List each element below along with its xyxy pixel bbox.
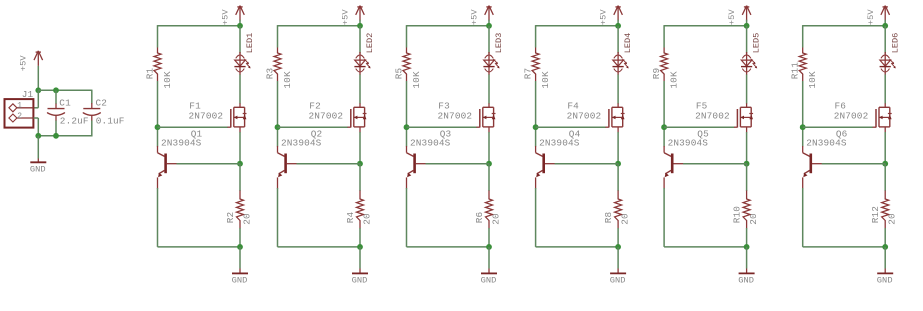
svg-text:GND: GND: [877, 276, 893, 286]
svg-text:10K: 10K: [540, 71, 551, 89]
wire left rail middle: [802, 81, 804, 147]
wire emitter down: [802, 188, 804, 247]
wire gate: [803, 126, 873, 128]
node gate junction: [800, 124, 806, 130]
wire emitter down: [157, 188, 159, 247]
resistor R10 20: [732, 191, 759, 229]
wire source node to R: [239, 164, 241, 191]
wire left rail upper: [663, 25, 665, 47]
svg-text:2N7002: 2N7002: [834, 111, 869, 122]
wire bottom rail: [803, 246, 886, 248]
node bottom junction: [237, 244, 243, 250]
wire emitter down: [406, 188, 408, 247]
resistor R2 20: [225, 191, 252, 229]
+5V supply symbol: [727, 6, 751, 26]
svg-text:10K: 10K: [282, 71, 293, 89]
wire +5V stub: [884, 20, 886, 26]
node +5V junction: [357, 23, 363, 29]
svg-text:GND: GND: [738, 276, 754, 286]
node base junction: [486, 161, 492, 167]
node gate junction: [533, 124, 539, 130]
MOSFET F1 2N7002: [189, 101, 247, 133]
wire J1 pin 2 to GND rail: [34, 117, 39, 119]
resistor R8 20: [603, 191, 630, 229]
svg-text:LED4: LED4: [623, 33, 633, 54]
wire top rail: [158, 25, 241, 27]
ground: [877, 273, 893, 285]
wire bottom rail: [664, 246, 747, 248]
wire left rail upper: [535, 25, 537, 47]
svg-text:GND: GND: [232, 276, 248, 286]
MOSFET F6 2N7002: [834, 101, 892, 133]
svg-text:R1: R1: [145, 68, 156, 80]
wire C2 drop: [91, 90, 93, 104]
svg-text:GND: GND: [610, 276, 626, 286]
wire source to base node: [488, 132, 490, 164]
svg-text:+5V: +5V: [341, 9, 351, 26]
wire left rail upper: [406, 25, 408, 47]
wire C2 bottom: [91, 121, 93, 137]
+5V supply symbol: [341, 6, 365, 26]
pin 1 of J1: [9, 101, 34, 111]
svg-text:2N3904S: 2N3904S: [161, 138, 202, 149]
svg-text:2N7002: 2N7002: [567, 111, 602, 122]
svg-text:10K: 10K: [669, 71, 680, 89]
svg-text:C1: C1: [59, 97, 71, 108]
svg-text:LED3: LED3: [494, 33, 504, 54]
connector J1: [5, 89, 34, 127]
wire +5V stub: [239, 20, 241, 26]
wire top rail: [278, 25, 361, 27]
wire to GND: [359, 247, 361, 269]
resistor R12 20: [870, 191, 897, 229]
svg-text:R2: R2: [225, 212, 236, 224]
wire left rail middle: [663, 81, 665, 147]
wire top rail: [407, 25, 490, 27]
wire R to bottom junction: [746, 228, 748, 247]
node base junction: [744, 161, 750, 167]
MOSFET F4 2N7002: [567, 101, 625, 133]
transistor Q4 2N3904S: [536, 128, 581, 188]
wire to GND: [488, 247, 490, 269]
ground: [232, 273, 248, 285]
LED LED6: [880, 26, 901, 75]
svg-text:LED6: LED6: [890, 33, 900, 54]
wire source to base node: [359, 132, 361, 164]
wire left rail middle: [535, 81, 537, 147]
svg-text:LED2: LED2: [365, 33, 375, 54]
resistor R9 10K: [651, 48, 680, 89]
+5V supply symbol: [599, 6, 623, 26]
resistor R4 20: [345, 191, 372, 229]
wire top rail: [536, 25, 619, 27]
wire bottom rail: [407, 246, 490, 248]
node +5V junction: [882, 23, 888, 29]
wire +5V down to J1 pin 1: [37, 90, 39, 108]
node +5V junction at capacitors: [35, 87, 41, 93]
wire source to base node: [239, 132, 241, 164]
wire LED to MOSFET drain: [239, 75, 241, 104]
svg-text:10K: 10K: [162, 71, 173, 89]
node gate junction: [275, 124, 281, 130]
svg-text:1: 1: [17, 101, 22, 110]
svg-text:GND: GND: [30, 164, 46, 174]
svg-text:R10: R10: [732, 206, 743, 224]
svg-text:2N3904S: 2N3904S: [668, 138, 709, 149]
node base junction: [357, 161, 363, 167]
wire +5V stub: [746, 20, 748, 26]
wire top rail: [664, 25, 747, 27]
wire +5V stub: [359, 20, 361, 26]
transistor Q2 2N3904S: [278, 128, 323, 188]
svg-text:10K: 10K: [411, 71, 422, 89]
capacitor C2: [83, 97, 124, 126]
svg-text:R7: R7: [523, 68, 534, 80]
LED LED4: [613, 26, 634, 75]
node bottom junction: [357, 244, 363, 250]
wire to GND symbol: [37, 136, 39, 159]
LED LED2: [354, 26, 375, 75]
svg-text:GND: GND: [481, 276, 497, 286]
svg-text:R11: R11: [790, 62, 801, 80]
transistor Q6 2N3904S: [803, 128, 848, 188]
+5V supply symbol: [866, 6, 890, 26]
wire +5V stub: [488, 20, 490, 26]
svg-text:20: 20: [748, 213, 759, 225]
+5V supply symbol: [470, 6, 494, 26]
wire base to junction: [426, 163, 490, 165]
transistor Q1 2N3904S: [158, 128, 203, 188]
svg-text:20: 20: [361, 213, 372, 225]
wire gate: [158, 126, 228, 128]
LED LED3: [483, 26, 504, 75]
node +5V junction: [237, 23, 243, 29]
wire to GND: [884, 247, 886, 269]
MOSFET F5 2N7002: [695, 101, 753, 133]
svg-text:R9: R9: [651, 68, 662, 80]
node base junction: [882, 161, 888, 167]
ground: [481, 273, 497, 285]
svg-text:+5V: +5V: [599, 9, 609, 26]
wire LED to MOSFET drain: [617, 75, 619, 104]
wire +5V to junction: [37, 66, 39, 90]
wire to GND: [746, 247, 748, 269]
svg-text:+5V: +5V: [221, 9, 231, 26]
svg-text:2N7002: 2N7002: [309, 111, 344, 122]
svg-text:R4: R4: [345, 212, 356, 224]
node gate junction: [155, 124, 161, 130]
pin 2 of J1: [9, 112, 34, 122]
wire base to junction: [177, 163, 241, 165]
svg-text:J1: J1: [22, 89, 34, 100]
wire source to base node: [746, 132, 748, 164]
wire base to junction: [822, 163, 886, 165]
wire left rail middle: [157, 81, 159, 147]
node +5V junction: [486, 23, 492, 29]
wire left rail middle: [406, 81, 408, 147]
svg-text:R6: R6: [474, 212, 485, 224]
svg-text:2N7002: 2N7002: [189, 111, 224, 122]
node gate junction: [661, 124, 667, 130]
wire base to junction: [297, 163, 361, 165]
wire LED to MOSFET drain: [359, 75, 361, 104]
wire bottom rail: [278, 246, 361, 248]
svg-text:2N7002: 2N7002: [438, 111, 473, 122]
node +5V junction: [615, 23, 621, 29]
wire to GND: [239, 247, 241, 269]
svg-text:R12: R12: [870, 206, 881, 223]
node bottom junction: [615, 244, 621, 250]
resistor R5 10K: [394, 48, 423, 89]
transistor Q5 2N3904S: [664, 128, 709, 188]
ground: [30, 162, 46, 174]
svg-text:+5V: +5V: [727, 9, 737, 26]
svg-text:+5V: +5V: [18, 55, 28, 72]
wire emitter down: [663, 188, 665, 247]
svg-text:GND: GND: [352, 276, 368, 286]
wire bottom rail: [536, 246, 619, 248]
+5V supply symbol: [18, 51, 42, 71]
wire base to junction: [683, 163, 747, 165]
wire left rail middle: [277, 81, 279, 147]
wire source to base node: [617, 132, 619, 164]
wire source node to R: [617, 164, 619, 191]
wire source node to R: [359, 164, 361, 191]
node bottom junction: [486, 244, 492, 250]
transistor Q3 2N3904S: [407, 128, 452, 188]
wire base to junction: [555, 163, 619, 165]
wire emitter down: [277, 188, 279, 247]
wire gate: [278, 126, 348, 128]
node bottom junction: [882, 244, 888, 250]
ground: [738, 273, 754, 285]
wire R to bottom junction: [617, 228, 619, 247]
resistor R1 10K: [145, 48, 174, 89]
MOSFET F3 2N7002: [438, 101, 496, 133]
svg-text:+5V: +5V: [866, 9, 876, 26]
wire left rail upper: [802, 25, 804, 47]
wire R to bottom junction: [884, 228, 886, 247]
node GND junction: [35, 133, 41, 139]
svg-text:R3: R3: [265, 68, 276, 80]
svg-text:20: 20: [887, 213, 898, 225]
wire top cap bus: [38, 89, 92, 91]
svg-text:2N7002: 2N7002: [695, 111, 730, 122]
ground: [610, 273, 626, 285]
node C1 bottom junction: [53, 133, 59, 139]
wire emitter down: [535, 188, 537, 247]
wire source to base node: [884, 132, 886, 164]
LED LED1: [234, 26, 255, 75]
MOSFET F2 2N7002: [309, 101, 367, 133]
svg-text:20: 20: [490, 213, 501, 225]
svg-text:0.1uF: 0.1uF: [96, 116, 125, 127]
svg-text:2N3904S: 2N3904S: [539, 138, 580, 149]
wire gate: [536, 126, 606, 128]
svg-text:2N3904S: 2N3904S: [281, 138, 322, 149]
LED LED5: [741, 26, 762, 75]
ground: [352, 273, 368, 285]
wire bottom rail: [158, 246, 241, 248]
wire source node to R: [746, 164, 748, 191]
node base junction: [237, 161, 243, 167]
node base junction: [615, 161, 621, 167]
wire LED to MOSFET drain: [488, 75, 490, 104]
node gate junction: [404, 124, 410, 130]
wire R to bottom junction: [239, 228, 241, 247]
svg-text:C2: C2: [96, 97, 108, 108]
node bottom junction: [744, 244, 750, 250]
node +5V junction: [744, 23, 750, 29]
capacitor C1: [48, 97, 89, 126]
wire +5V stub: [617, 20, 619, 26]
svg-text:2N3904S: 2N3904S: [410, 138, 451, 149]
wire LED to MOSFET drain: [884, 75, 886, 104]
resistor R6 20: [474, 191, 501, 229]
svg-text:R8: R8: [603, 212, 614, 224]
wire R to bottom junction: [488, 228, 490, 247]
wire left rail upper: [157, 25, 159, 47]
resistor R7 10K: [523, 48, 552, 89]
svg-text:+5V: +5V: [470, 9, 480, 26]
svg-text:20: 20: [619, 213, 630, 225]
wire bottom cap bus / GND net: [38, 135, 92, 137]
node C1 top junction: [53, 87, 59, 93]
wire R to bottom junction: [359, 228, 361, 247]
wire gate: [407, 126, 477, 128]
wire to GND: [617, 247, 619, 269]
wire gate: [664, 126, 734, 128]
wire C1 pins: [55, 90, 57, 103]
svg-text:LED1: LED1: [245, 33, 255, 54]
svg-text:20: 20: [241, 213, 252, 225]
resistor R11 10K: [790, 48, 819, 89]
wire source node to R: [884, 164, 886, 191]
wire top rail: [803, 25, 886, 27]
wire left rail upper: [277, 25, 279, 47]
svg-text:10K: 10K: [807, 71, 818, 89]
svg-text:2N3904S: 2N3904S: [806, 138, 847, 149]
svg-text:LED5: LED5: [752, 33, 762, 54]
svg-text:2.2uF: 2.2uF: [60, 116, 89, 127]
svg-text:2: 2: [17, 112, 22, 121]
svg-text:R5: R5: [394, 68, 405, 80]
wire source node to R: [488, 164, 490, 191]
+5V supply symbol: [221, 6, 245, 26]
wire LED to MOSFET drain: [746, 75, 748, 104]
resistor R3 10K: [265, 48, 294, 89]
